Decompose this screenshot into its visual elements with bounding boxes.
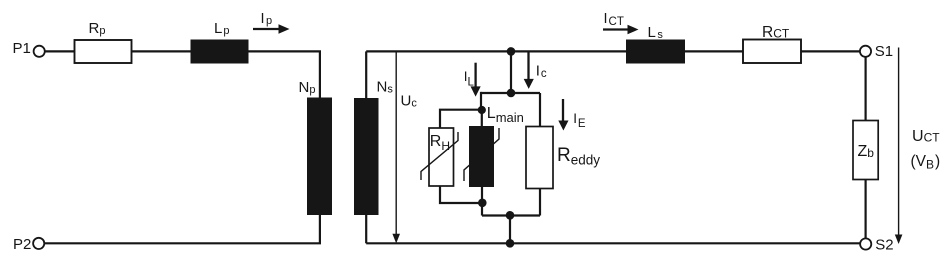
svg-text:IE: IE	[573, 111, 586, 130]
wire node step down	[481, 203, 483, 216]
svg-text:Ip: Ip	[261, 11, 273, 27]
current arrow Ip	[253, 11, 290, 34]
wire Lmain top stem	[481, 110, 483, 127]
wire Lp to Np top	[248, 51, 320, 99]
svg-text:IL: IL	[464, 69, 475, 88]
terminal S1	[860, 43, 893, 60]
svg-text:P1: P1	[13, 40, 31, 57]
burden impedance Zb	[853, 121, 878, 180]
svg-text:S2: S2	[875, 237, 893, 254]
svg-text:Reddy: Reddy	[557, 145, 600, 168]
nonlinear inductor Lmain	[464, 105, 524, 187]
wire Reddy top stem	[539, 93, 541, 128]
svg-text:Zb: Zb	[858, 143, 875, 160]
svg-text:Rp: Rp	[89, 20, 106, 37]
svg-text:Ic: Ic	[536, 62, 547, 80]
node junction bottom rail	[506, 239, 515, 248]
wire secondary top rail	[366, 50, 859, 52]
wire Lmain bottom stem	[481, 186, 483, 203]
current arrow IL	[464, 63, 481, 97]
wire shunt to bottom rail	[509, 216, 511, 244]
svg-text:UCT: UCT	[912, 128, 940, 145]
current arrow ICT	[603, 11, 639, 34]
wire Ns top to top rail	[365, 51, 367, 99]
resistor Reddy	[526, 127, 600, 189]
wire shunt top bar left drop	[480, 92, 482, 110]
resistor RCT	[743, 24, 801, 63]
svg-text:Ns: Ns	[377, 79, 394, 96]
wire shunt bottom bar	[482, 214, 540, 216]
current arrow Ic	[524, 53, 547, 89]
wire P1 to Rp	[45, 50, 76, 52]
transformer secondary winding Ns	[354, 79, 393, 216]
svg-text:Ls: Ls	[648, 24, 664, 41]
svg-text:Np: Np	[299, 79, 316, 96]
wire shunt top bar	[481, 92, 541, 94]
node junction top rail	[507, 47, 516, 56]
terminal P2	[13, 236, 44, 253]
wire Rp to Lp	[131, 50, 191, 52]
inductor Lp	[191, 20, 249, 64]
inductor Ls	[626, 24, 685, 64]
wire secondary bottom rail	[366, 242, 860, 244]
svg-text:P2: P2	[13, 236, 31, 253]
wire S1 to Zb	[864, 57, 866, 121]
terminal P1	[13, 40, 45, 57]
node junction shunt bottom	[506, 211, 515, 220]
nonlinear resistor RH	[421, 128, 458, 186]
svg-text:Uc: Uc	[401, 93, 418, 110]
current arrow IE	[558, 99, 586, 131]
transformer primary winding Np	[299, 79, 333, 215]
terminal S2	[860, 237, 894, 254]
voltage arrow UCT	[895, 48, 940, 245]
voltage arrow Uc	[392, 52, 417, 243]
svg-text:Lp: Lp	[214, 20, 229, 37]
wire Reddy bottom stem	[539, 188, 541, 216]
svg-text:Lmain: Lmain	[487, 105, 524, 125]
svg-text:(VB): (VB)	[911, 153, 941, 172]
wire RH bottom to node	[440, 185, 482, 203]
svg-text:ICT: ICT	[604, 11, 624, 28]
node junction Lmain top	[478, 106, 486, 114]
node junction shunt top	[507, 89, 516, 98]
svg-text:RCT: RCT	[762, 24, 790, 41]
wire Zb to S2	[864, 179, 866, 238]
node junction RH Lmain bottom	[478, 199, 487, 208]
wire Np bottom to P2	[45, 214, 320, 243]
wire Ns bottom to bottom rail	[365, 214, 367, 243]
wire shunt stem from top rail	[510, 51, 512, 93]
resistor Rp	[75, 20, 132, 63]
svg-text:S1: S1	[875, 43, 893, 60]
wire node to RH top	[440, 110, 482, 129]
